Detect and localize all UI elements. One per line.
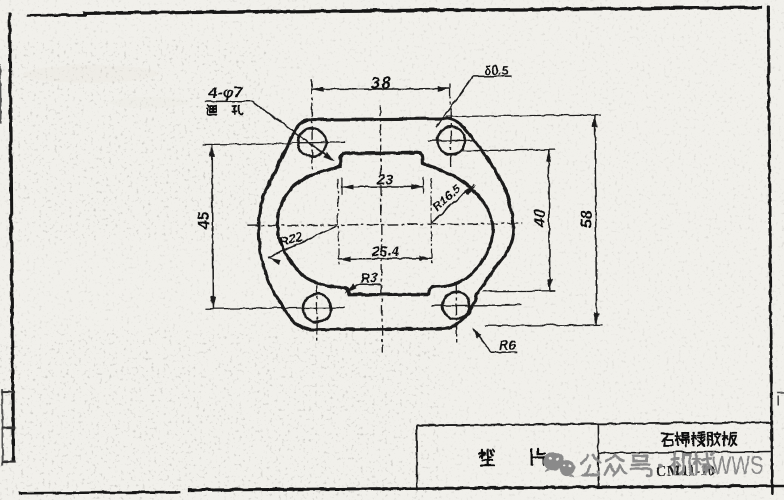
svg-text:38: 38	[370, 73, 392, 92]
sheet border bottom	[18, 491, 180, 492]
svg-text:δ0.5: δ0.5	[484, 62, 509, 77]
label R16.5 leader	[430, 184, 475, 223]
centerline bottom-left hole vertical	[315, 281, 317, 343]
material text jiao	[707, 431, 720, 445]
gasket inner cutout	[276, 152, 493, 295]
svg-text:WWS: WWS	[712, 449, 763, 479]
title block middle line	[598, 451, 772, 452]
arc center mark left (25.4 extension)	[336, 178, 339, 263]
label tongkong (through holes)	[206, 105, 242, 114]
material text shi	[660, 433, 673, 445]
svg-text:R6: R6	[498, 337, 516, 352]
svg-text:4-φ7: 4-φ7	[207, 84, 243, 101]
sheet border left	[9, 12, 13, 462]
centerline top-left hole vertical	[310, 80, 313, 172]
scan smudge top-left	[23, 64, 159, 83]
watermark text hao	[630, 455, 651, 475]
watermark text gong	[580, 454, 600, 474]
dimension 38	[311, 73, 449, 93]
bolt hole top-right	[437, 126, 465, 154]
svg-text:R3: R3	[360, 270, 378, 285]
label 4-phi7 leader	[204, 100, 334, 162]
bolt hole top-left	[297, 127, 326, 156]
label delta0.5 leader	[435, 76, 511, 127]
svg-text:23: 23	[376, 170, 393, 186]
title block top line	[416, 422, 771, 425]
label R3 leader	[344, 283, 381, 293]
dimension 40	[461, 149, 555, 291]
main vertical centerline	[380, 104, 382, 352]
title text pian (gasket char2)	[531, 449, 544, 464]
centerline bottom-right hole vertical	[454, 282, 456, 342]
watermark text ji	[671, 453, 693, 474]
svg-text:58: 58	[578, 209, 595, 227]
label R6 leader	[471, 326, 517, 352]
material text mian	[675, 432, 688, 446]
bolt hole bottom-left	[302, 293, 330, 321]
label R22 leader	[267, 225, 337, 264]
watermark wechat icon	[543, 452, 575, 478]
right margin marks	[776, 392, 784, 405]
dimension 58	[445, 114, 602, 325]
svg-text:25.4: 25.4	[370, 243, 399, 259]
watermark text zhong	[604, 454, 625, 474]
watermark text xie2	[693, 452, 714, 473]
svg-text:40: 40	[531, 208, 548, 227]
dimension 25.4	[338, 243, 431, 261]
centerline top-left hole horizontal	[291, 140, 344, 142]
dimension 45	[195, 143, 345, 309]
gasket outer outline	[257, 118, 513, 330]
scan edge artifact left	[0, 63, 1, 123]
centerline top-right hole vertical	[449, 84, 452, 168]
bolt hole bottom-right	[442, 291, 469, 318]
title text dian (gasket char1)	[479, 449, 494, 465]
arc center mark right (25.4 extension)	[429, 178, 432, 263]
material text ban	[722, 431, 736, 445]
left edge tick 2	[1, 426, 14, 428]
svg-text:45: 45	[195, 210, 212, 230]
dimension 23	[341, 170, 423, 194]
left edge tick 1	[1, 390, 14, 392]
centerline bottom-right hole horizontal	[431, 303, 520, 306]
centerline top-right hole horizontal	[427, 139, 475, 141]
material text xiang	[691, 432, 704, 446]
sheet border top	[26, 13, 86, 16]
title block divider	[596, 423, 599, 487]
sheet border right	[768, 6, 772, 494]
main horizontal centerline	[247, 223, 522, 225]
left edge tick 3	[2, 460, 15, 462]
watermark dot	[657, 463, 661, 467]
title block left line	[415, 425, 418, 489]
